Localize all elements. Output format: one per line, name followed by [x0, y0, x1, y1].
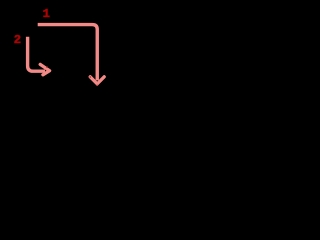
arrow 1 head (down chevron) [90, 77, 104, 84]
annotated flow diagram: two numbered arrows on black [0, 0, 120, 120]
svg-text:1: 1 [43, 7, 50, 21]
arrow 2 shaft: down then right [28, 37, 45, 71]
arrow 2 tip artifact [46, 67, 48, 68]
svg-text:2: 2 [14, 33, 21, 47]
arrow 2 head (right chevron) [40, 64, 49, 74]
arrow 1 shaft: right then down [38, 25, 98, 81]
arrow 1 tip artifacts [90, 76, 91, 77]
